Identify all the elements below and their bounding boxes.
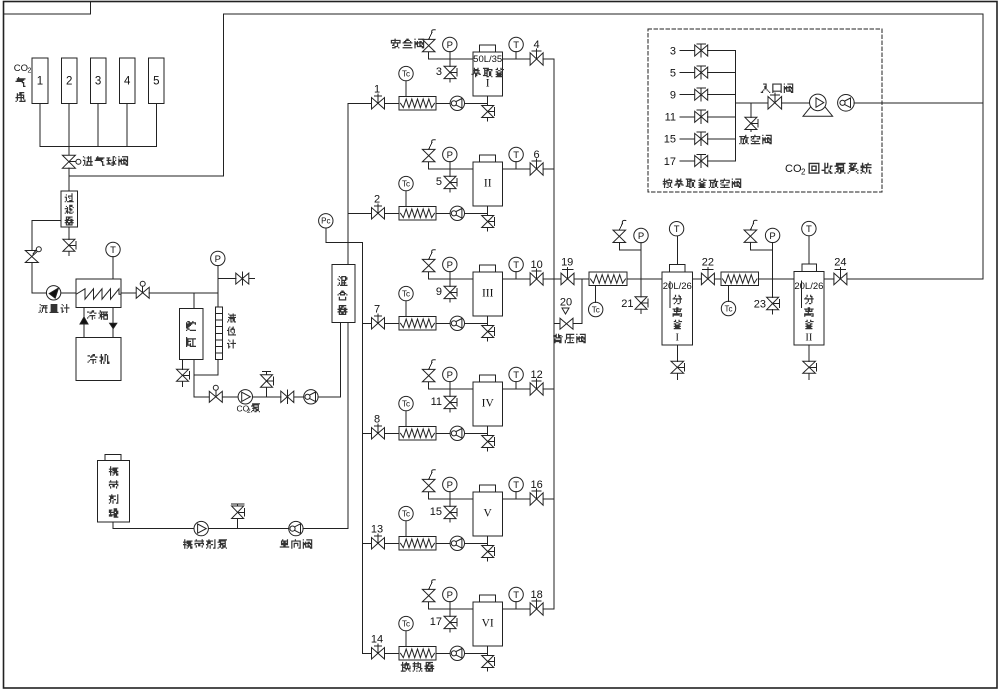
svg-text:21: 21	[621, 298, 633, 310]
svg-text:Tc: Tc	[402, 399, 410, 408]
svg-text:Pc: Pc	[321, 217, 330, 226]
svg-text:3: 3	[670, 45, 676, 57]
svg-text:13: 13	[371, 523, 383, 535]
svg-text:6: 6	[534, 149, 540, 161]
svg-text:T: T	[513, 40, 519, 51]
svg-text:P: P	[769, 231, 775, 242]
svg-text:4: 4	[124, 75, 131, 87]
svg-text:Tc: Tc	[402, 509, 410, 518]
svg-text:19: 19	[561, 257, 573, 269]
svg-text:5: 5	[153, 75, 159, 87]
svg-text:16: 16	[530, 479, 542, 491]
svg-text:IV: IV	[482, 397, 495, 409]
svg-text:24: 24	[834, 257, 846, 269]
svg-text:III: III	[482, 287, 494, 299]
svg-text:Tc: Tc	[592, 305, 600, 314]
svg-text:1: 1	[37, 75, 43, 87]
svg-text:1: 1	[374, 83, 380, 95]
svg-text:II: II	[805, 333, 812, 344]
svg-text:2: 2	[374, 193, 380, 205]
svg-text:P: P	[447, 150, 453, 161]
svg-text:T: T	[513, 590, 519, 601]
svg-text:P: P	[447, 40, 453, 51]
svg-text:14: 14	[371, 633, 383, 645]
svg-text:10: 10	[530, 259, 542, 271]
svg-text:18: 18	[530, 589, 542, 601]
svg-text:11: 11	[431, 396, 442, 408]
svg-text:Tc: Tc	[402, 179, 410, 188]
svg-text:15: 15	[664, 134, 676, 146]
svg-text:15: 15	[430, 506, 442, 518]
svg-text:CO: CO	[14, 63, 28, 74]
svg-text:T: T	[110, 245, 116, 256]
svg-text:I: I	[486, 78, 490, 90]
svg-text:5: 5	[436, 176, 442, 188]
svg-text:T: T	[513, 370, 519, 381]
svg-text:P: P	[447, 260, 453, 271]
svg-text:11: 11	[665, 112, 676, 124]
svg-text:5: 5	[670, 67, 676, 79]
svg-text:T: T	[513, 150, 519, 161]
svg-text:8: 8	[374, 413, 380, 425]
svg-text:2: 2	[66, 75, 72, 87]
svg-text:2: 2	[801, 168, 806, 177]
svg-text:3: 3	[436, 66, 442, 78]
svg-text:22: 22	[702, 257, 714, 269]
svg-text:V: V	[484, 507, 493, 519]
svg-text:P: P	[447, 590, 453, 601]
svg-text:P: P	[215, 254, 221, 265]
svg-text:P: P	[447, 370, 453, 381]
svg-text:Tc: Tc	[402, 69, 410, 78]
svg-text:2: 2	[28, 67, 32, 74]
svg-text:17: 17	[430, 616, 442, 628]
svg-text:20: 20	[560, 297, 572, 309]
svg-text:T: T	[513, 260, 519, 271]
svg-text:T: T	[806, 224, 812, 235]
svg-text:P: P	[638, 231, 644, 242]
svg-text:20L/26: 20L/26	[663, 281, 692, 292]
svg-text:9: 9	[670, 90, 676, 102]
svg-text:4: 4	[534, 39, 540, 51]
svg-text:2: 2	[247, 408, 251, 415]
svg-text:3: 3	[95, 75, 101, 87]
svg-text:7: 7	[374, 303, 380, 315]
svg-text:50L/35: 50L/35	[473, 54, 502, 65]
svg-text:9: 9	[436, 286, 442, 298]
svg-text:Tc: Tc	[402, 619, 410, 628]
svg-text:II: II	[484, 177, 492, 189]
svg-text:23: 23	[754, 298, 766, 310]
svg-text:17: 17	[664, 156, 676, 168]
svg-text:P: P	[447, 480, 453, 491]
svg-text:T: T	[513, 480, 519, 491]
svg-text:CO: CO	[785, 163, 802, 175]
svg-text:20L/26: 20L/26	[794, 281, 823, 292]
svg-text:Tc: Tc	[402, 289, 410, 298]
svg-text:Tc: Tc	[725, 304, 733, 313]
svg-text:T: T	[674, 224, 680, 235]
svg-text:I: I	[676, 333, 680, 344]
svg-text:VI: VI	[482, 617, 494, 629]
svg-text:12: 12	[530, 369, 542, 381]
